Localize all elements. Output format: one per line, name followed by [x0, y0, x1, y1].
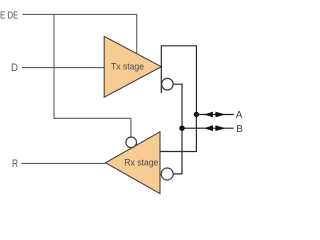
wire: A line out	[196, 114, 233, 116]
op-amp U2 Rx stage (receiver triangle)	[106, 132, 161, 194]
wire: B line out	[182, 127, 234, 129]
wire: B branch (bubble output down to Rx - input)	[173, 84, 182, 174]
svg-text:E DE: E DE	[0, 9, 18, 21]
op-amp U1 Tx stage (driver triangle)	[104, 36, 161, 97]
svg-text:R: R	[12, 158, 18, 170]
wire: driver output bar	[160, 46, 162, 93]
inversion bubble on driver B output	[162, 78, 174, 90]
svg-text:Rx stage: Rx stage	[124, 158, 158, 169]
junction on B line	[179, 126, 184, 131]
arrowheads on B line	[204, 125, 213, 131]
enable bubble on Rx stage	[126, 137, 137, 148]
wire: enable drop to Tx stage	[136, 14, 138, 54]
svg-text:D: D	[11, 62, 18, 74]
junction on A line	[194, 112, 199, 117]
svg-text:Tx stage: Tx stage	[111, 62, 144, 73]
inversion bubble on receiver B input	[161, 168, 173, 180]
wire: E DE top horizontal	[22, 13, 136, 15]
arrowheads on A line	[204, 112, 213, 118]
wire: D input	[22, 67, 104, 69]
svg-text:A: A	[236, 110, 243, 121]
svg-text:B: B	[236, 124, 243, 135]
wire: enable rail to Rx bubble	[54, 14, 131, 137]
wire: A branch (driver top output to Rx + input)	[160, 46, 196, 152]
wire: R output	[22, 162, 106, 164]
